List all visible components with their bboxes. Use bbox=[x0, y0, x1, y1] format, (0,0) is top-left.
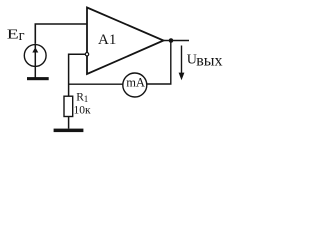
voltage source EG circle bbox=[24, 45, 46, 67]
svg-text:mA: mA bbox=[126, 76, 145, 90]
op-amp A1 triangle bbox=[87, 8, 164, 75]
svg-text:A1: A1 bbox=[98, 32, 116, 48]
ground (under R1) bbox=[54, 129, 84, 133]
wire: milliammeter right to feedback riser bbox=[147, 41, 171, 85]
wire: node to milliammeter left bbox=[69, 83, 123, 85]
svg-text:вых: вых bbox=[196, 53, 222, 70]
wire: op-amp output bbox=[164, 40, 190, 42]
voltage source EG arrow bbox=[32, 47, 38, 52]
svg-text:10к: 10к bbox=[74, 105, 92, 117]
junction dot bbox=[169, 38, 174, 43]
wire: inverting input left and down to node bbox=[69, 54, 85, 96]
inverting input bubble bbox=[85, 53, 88, 56]
svg-text:г: г bbox=[19, 28, 25, 44]
svg-text:1: 1 bbox=[84, 94, 89, 104]
svg-text:E: E bbox=[7, 28, 19, 43]
resistor R1 bbox=[64, 96, 73, 116]
milliammeter PA circle bbox=[123, 73, 147, 97]
voltage source EG internal line bbox=[34, 45, 36, 67]
ground (under source) bbox=[27, 77, 49, 80]
wire: source top to op-amp non-inverting input bbox=[35, 24, 87, 44]
wire: source bottom to ground bbox=[34, 66, 36, 77]
U_out arrow bbox=[179, 46, 185, 81]
wire: resistor bottom to ground bbox=[68, 117, 70, 129]
